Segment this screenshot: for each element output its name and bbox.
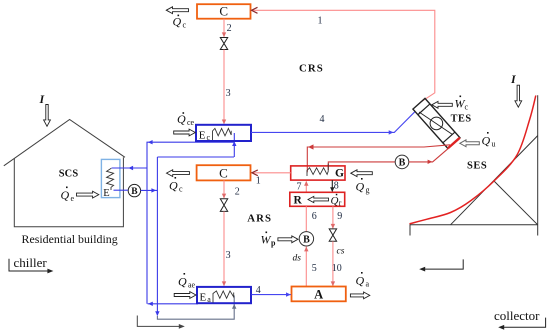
label Ea	[200, 291, 212, 304]
house roof	[4, 120, 125, 166]
coil in Ea	[213, 291, 234, 303]
svg-text:2: 2	[227, 23, 232, 34]
label collector	[494, 308, 540, 323]
wire chilled supply to coil E	[112, 166, 148, 170]
svg-text:4: 4	[256, 285, 261, 296]
wire Ea bottom return	[148, 302, 198, 306]
wire Ec bottom return (line A)	[147, 140, 234, 304]
wire SES hot water TES to G	[307, 144, 450, 172]
node 3 (CRS)	[226, 88, 231, 99]
collector left tick	[409, 223, 411, 236]
svg-text:c: c	[207, 133, 211, 142]
wire 1 CRS from TES to C	[251, 7, 435, 102]
wire 6 B to R	[305, 206, 307, 231]
label cs	[337, 247, 345, 257]
pump B (ARS)	[299, 232, 313, 246]
pump B (house loop)	[128, 184, 140, 197]
svg-text:ds: ds	[293, 254, 302, 264]
svg-text:e: e	[71, 194, 75, 203]
node 4 (ARS)	[256, 285, 261, 296]
label Qc (CRS)	[173, 15, 187, 30]
node 9	[337, 211, 342, 222]
svg-text:Q: Q	[61, 188, 70, 202]
svg-text:B: B	[399, 158, 406, 169]
arrow Qa out of A	[350, 292, 369, 299]
node 4 (CRS)	[320, 114, 325, 125]
house walls	[14, 157, 123, 227]
wire SES pump to TES	[409, 148, 449, 164]
arrow Wp into B	[278, 236, 298, 243]
svg-text:B: B	[303, 235, 310, 246]
label CRS	[299, 63, 324, 75]
svg-text:a: a	[366, 280, 370, 289]
label Qce	[177, 112, 195, 127]
node 1 (ARS)	[256, 175, 261, 186]
svg-text:Q: Q	[169, 179, 178, 193]
wire 2 ARS C to valve	[222, 180, 226, 198]
chiller direction mark	[9, 259, 53, 274]
svg-text:G: G	[335, 168, 344, 180]
node 10	[332, 263, 342, 274]
svg-text:3: 3	[226, 250, 231, 261]
svg-text:ARS: ARS	[247, 212, 272, 224]
svg-text:ce: ce	[187, 118, 195, 127]
arrow Qg into G	[351, 170, 373, 177]
wire 1 ARS G to C	[251, 170, 290, 176]
svg-text:C: C	[219, 166, 228, 181]
evaporator Ec box	[196, 125, 251, 141]
label I (collector irradiance)	[510, 72, 517, 86]
label Qr	[331, 194, 342, 208]
svg-text:p: p	[271, 239, 276, 248]
wire into Ec bottom	[232, 133, 236, 157]
fan-coil E box	[101, 159, 120, 197]
svg-text:Q: Q	[177, 112, 186, 126]
svg-text:R: R	[294, 195, 303, 207]
wire pump B to riser	[141, 188, 158, 192]
arrow Qe into E	[77, 191, 99, 198]
condenser C (CRS)	[197, 4, 251, 19]
svg-text:Q: Q	[356, 274, 365, 288]
label Qg	[356, 178, 370, 195]
svg-text:C: C	[219, 4, 228, 19]
svg-text:Residential building: Residential building	[22, 232, 118, 246]
svg-text:TES: TES	[451, 114, 472, 125]
wire 10 valve to A	[331, 241, 335, 286]
svg-text:c: c	[183, 21, 187, 30]
label Qe	[61, 187, 75, 204]
wire 4 ARS Ea to A	[252, 292, 291, 296]
arrow Qu into TES	[460, 140, 480, 147]
svg-text:4: 4	[320, 114, 325, 125]
svg-text:3: 3	[226, 88, 231, 99]
svg-text:Q: Q	[356, 180, 365, 194]
arrow Qce into Ec	[174, 129, 196, 136]
svg-text:g: g	[366, 186, 370, 195]
label Residential building	[22, 232, 118, 246]
wire line B horizontal	[157, 156, 234, 158]
heat exchanger R box	[290, 192, 345, 206]
node 2 (ARS)	[235, 186, 240, 197]
arrow I down (house)	[44, 105, 51, 127]
wire 5 A to B	[304, 246, 308, 286]
wire 9 R to valve	[331, 206, 335, 228]
wire 3 ARS valve to Ea	[222, 211, 226, 286]
arrow Qr in R	[308, 196, 329, 202]
svg-text:7: 7	[297, 181, 302, 192]
svg-text:A: A	[314, 287, 323, 301]
wire SES return G to pump B	[328, 162, 395, 170]
label I (house irradiance)	[39, 92, 46, 106]
coil in Ec	[213, 128, 232, 140]
wire slate feed to Ea	[157, 296, 236, 320]
fan-coil E coil	[107, 168, 114, 190]
svg-text:collector: collector	[494, 308, 540, 323]
svg-text:1: 1	[256, 175, 261, 186]
svg-text:c: c	[465, 103, 469, 112]
label SCS	[59, 169, 79, 180]
svg-text:E: E	[200, 291, 207, 303]
absorber A box	[292, 287, 346, 302]
valve V1 (CRS)	[220, 38, 227, 50]
compressor/TES unit	[413, 98, 460, 148]
wire riser 2 down	[155, 157, 159, 316]
svg-text:Q: Q	[173, 15, 182, 29]
svg-text:E: E	[199, 130, 206, 142]
svg-text:9: 9	[337, 211, 342, 222]
collector direction mark	[498, 318, 545, 330]
node 7	[297, 181, 302, 192]
bottom-left direction mark	[137, 316, 185, 329]
node 2 (CRS)	[227, 23, 232, 34]
arrow Wc into TES	[432, 101, 453, 108]
svg-text:8: 8	[334, 181, 339, 192]
node 8	[334, 181, 339, 192]
node 6	[312, 211, 317, 222]
collector curve	[410, 96, 536, 224]
coil in G	[307, 164, 328, 177]
wire 4 CRS Ec to TES	[251, 112, 415, 135]
collector right post	[537, 95, 539, 235]
collector diagonal 2	[494, 181, 538, 225]
svg-text:c: c	[179, 185, 183, 194]
svg-text:Q: Q	[178, 275, 187, 289]
pump B (SES)	[395, 155, 409, 169]
label Qu	[482, 132, 496, 149]
svg-text:1: 1	[318, 16, 323, 27]
valve V3 (ARS)	[220, 199, 227, 212]
svg-text:ae: ae	[188, 281, 196, 290]
arrow Qae into Ea	[174, 292, 196, 299]
wire E to pump B	[114, 189, 129, 191]
svg-text:CRS: CRS	[299, 63, 324, 75]
wire 8 G to R	[330, 180, 334, 192]
label TES	[451, 114, 472, 125]
svg-text:a: a	[207, 295, 211, 304]
label chiller	[14, 255, 48, 270]
label ARS	[247, 212, 272, 224]
node 3 (ARS)	[226, 250, 231, 261]
label Qc (ARS)	[169, 177, 183, 194]
label SES	[467, 160, 487, 171]
condenser C (ARS)	[197, 165, 251, 180]
svg-text:B: B	[131, 187, 138, 197]
arrow I down (collector)	[515, 85, 522, 107]
label Wc	[455, 96, 469, 112]
svg-text:10: 10	[332, 263, 342, 274]
arrow Qc out (CRS)	[166, 7, 188, 14]
generator G box	[291, 166, 345, 180]
svg-text:SCS: SCS	[59, 169, 79, 180]
svg-text:chiller: chiller	[14, 255, 48, 270]
wire 7 R to G	[304, 181, 308, 192]
arrow Qc out (ARS)	[167, 170, 190, 177]
collector baseline	[410, 224, 538, 226]
svg-text:r: r	[339, 198, 342, 207]
right direction mark	[419, 259, 463, 271]
svg-text:Q: Q	[331, 195, 339, 207]
wire 3 CRS valve to Ec	[222, 50, 226, 125]
svg-text:SES: SES	[467, 160, 487, 171]
label ds	[293, 254, 302, 264]
svg-text:u: u	[492, 140, 496, 149]
label E	[103, 188, 109, 199]
svg-text:2: 2	[235, 186, 240, 197]
node 5	[312, 263, 317, 274]
svg-text:W: W	[261, 233, 272, 247]
evaporator Ea box	[197, 287, 251, 303]
svg-text:cs: cs	[337, 247, 345, 257]
svg-text:Q: Q	[482, 134, 491, 148]
collector diagonal 1	[451, 136, 538, 225]
label Wp	[261, 232, 277, 248]
node 1 (CRS)	[318, 16, 323, 27]
label Qae	[178, 273, 196, 290]
label Qa	[356, 272, 370, 289]
svg-text:5: 5	[312, 263, 317, 274]
valve V2 (ARS solution)	[329, 229, 336, 241]
svg-text:6: 6	[312, 211, 317, 222]
wire 2 CRS C to valve	[222, 19, 226, 38]
label Ec	[199, 130, 211, 143]
svg-text:E: E	[103, 188, 109, 199]
